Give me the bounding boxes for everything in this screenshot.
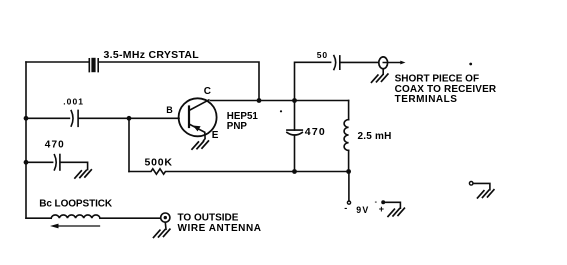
connector J2 coax output ring: [379, 57, 388, 69]
svg-text:B: B: [166, 105, 173, 115]
wire: J2 ground stem: [382, 69, 384, 74]
svg-text:-: -: [375, 199, 378, 206]
svg-text:470: 470: [45, 140, 65, 151]
wire: J1 to ground stem: [164, 222, 167, 229]
capacitor C3 50 straight plate: [339, 56, 341, 69]
battery B1 minus terminal: [347, 201, 350, 204]
svg-text:500K: 500K: [145, 157, 173, 169]
capacitor C1 .001 straight plate: [77, 110, 79, 126]
transistor Q1 base bar: [188, 107, 190, 128]
node E: collector / C4-C3 junction: [292, 98, 297, 103]
svg-text:SHORT PIECE OF: SHORT PIECE OF: [395, 74, 479, 85]
svg-text:9V: 9V: [356, 205, 369, 215]
connector J1 center contact: [164, 216, 167, 219]
svg-text:TO OUTSIDE: TO OUTSIDE: [178, 213, 239, 224]
stray mark: speck near C4: [280, 110, 282, 112]
wire: C2 to ground: [61, 162, 88, 169]
wire: L2 bottom to node: [348, 150, 350, 171]
wire: left vertical bus: [25, 62, 27, 218]
crystal Y1 body: [91, 58, 95, 72]
svg-text:3.5-MHz CRYSTAL: 3.5-MHz CRYSTAL: [104, 49, 200, 61]
wire: C1 to base node to transistor base: [79, 117, 179, 119]
node B: left bus / C2 junction: [24, 160, 29, 165]
ground (C2 470): [75, 170, 91, 178]
stray mark: small dot upper right: [469, 63, 472, 66]
wire: riser to 50 cap branch: [295, 62, 331, 100]
node A: left bus / C1 junction: [24, 116, 29, 121]
battery B1 plus terminal: [381, 200, 385, 204]
connector J1 antenna terminal outer ring: [161, 213, 170, 222]
ground (battery): [388, 208, 404, 216]
node C: base / 500K junction: [127, 116, 132, 121]
svg-text:50: 50: [317, 50, 328, 60]
wire: base node down to 500K: [128, 118, 130, 171]
node D: collector / crystal junction: [257, 98, 262, 103]
svg-text:E: E: [212, 130, 219, 141]
transistor Q1 emitter arrow (PNP): [193, 126, 201, 132]
wire: 470L branch from left bus: [26, 161, 53, 163]
svg-text:470: 470: [305, 126, 326, 138]
wire: collector node horizontal: [211, 100, 349, 102]
capacitor C1 .001 curved plate: [71, 111, 73, 127]
wire: plus terminal to ground: [385, 202, 400, 208]
svg-text:2.5 mH: 2.5 mH: [358, 131, 392, 142]
wire: top crystal wire, left segment: [26, 61, 89, 63]
capacitor C3 50 curved plate: [334, 56, 336, 70]
stray terminal: open circle right side: [469, 182, 473, 186]
resistor R1 500K (left lead, zigzag, right lead along bottom node wire): [129, 169, 349, 174]
wire: bottom bus to loopstick: [26, 217, 51, 219]
svg-text:WIRE ANTENNA: WIRE ANTENNA: [178, 223, 262, 234]
svg-text:Bc LOOPSTICK: Bc LOOPSTICK: [39, 199, 113, 210]
svg-text:C: C: [204, 86, 211, 97]
svg-text:-: -: [344, 203, 347, 213]
wire: C3 to coax connector: [341, 61, 379, 63]
transistor Q1 emitter lead: [189, 124, 205, 141]
svg-text:.001: .001: [63, 96, 84, 106]
wire: bottom node down to battery minus terminal: [348, 172, 350, 201]
connector J2 pin tip arrow: [400, 61, 405, 65]
ground (J2 coax): [372, 74, 388, 82]
node F: bottom / C4 junction: [292, 169, 297, 174]
connector J2 center pin: [383, 62, 402, 64]
wire: 470R branch down from collector wire: [294, 101, 296, 131]
arrow: tuning arrow under coil: [58, 225, 100, 227]
transistor Q1 collector lead: [189, 100, 209, 111]
svg-text:PNP: PNP: [227, 121, 248, 132]
inductor L1 Bc loopstick coil: [51, 215, 100, 218]
wire: stray terminal to ground: [473, 183, 490, 189]
wire: top crystal wire, right segment + drop to collector node: [99, 62, 259, 100]
wire: .001 branch from left bus: [26, 117, 69, 119]
capacitor C2 470 curved plate: [54, 155, 56, 170]
capacitor C2 470 straight plate: [59, 155, 61, 171]
crystal Y1 3.5-MHz (plates): [89, 59, 98, 72]
inductor L2 2.5mH coil: [344, 120, 349, 151]
ground (stray right): [478, 190, 494, 198]
node G: bottom / L2 / battery junction: [346, 169, 351, 174]
wire: inductor branch from collector wire: [348, 101, 350, 120]
svg-text:+: +: [379, 204, 384, 214]
capacitor C4 470 straight plate: [287, 129, 302, 131]
wire: loopstick to antenna connector: [100, 217, 161, 219]
ground (J1 antenna): [154, 229, 170, 237]
wire: C4 to bottom node: [294, 135, 296, 171]
capacitor C4 470 curved plate: [287, 132, 302, 135]
svg-text:TERMINALS: TERMINALS: [395, 94, 458, 105]
ground (Q1 emitter): [192, 141, 208, 149]
transistor Q1 circle: [179, 98, 217, 136]
